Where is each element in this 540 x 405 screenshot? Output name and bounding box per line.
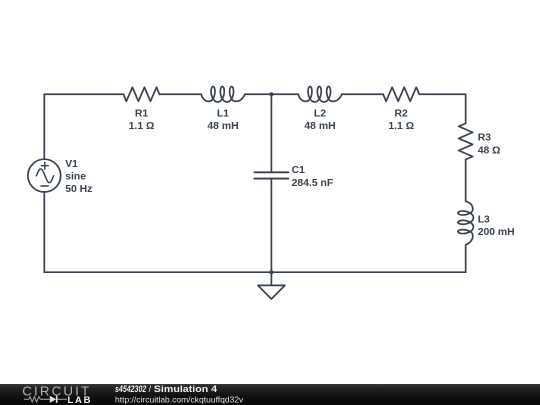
wire L1 to L2 through node B [245, 93, 298, 95]
logo resistor squiggle [29, 397, 41, 402]
svg-text:48 Ω: 48 Ω [478, 146, 501, 157]
resistor R2 [383, 87, 419, 101]
svg-text:L2: L2 [314, 108, 326, 119]
V1 plus sign [41, 162, 48, 169]
svg-text:L3: L3 [478, 214, 490, 225]
svg-text:LAB: LAB [68, 395, 93, 405]
svg-text:284.5 nF: 284.5 nF [292, 178, 334, 189]
svg-text:R1: R1 [135, 108, 149, 119]
wire R2 to top-right corner down to R3 [419, 94, 465, 123]
svg-text:Simulation 4: Simulation 4 [154, 384, 217, 394]
ground stub wire [270, 272, 272, 285]
ground symbol triangle [258, 285, 285, 299]
svg-text:48 mH: 48 mH [207, 121, 238, 132]
svg-text:R3: R3 [478, 132, 492, 143]
bottom node junction dot [269, 270, 273, 274]
wire L2 to R2 [342, 93, 383, 95]
wire L3 to bottom-right corner [465, 245, 467, 272]
svg-text:C1: C1 [292, 165, 306, 176]
wire left vertical bottom (V1 to bottom) [43, 192, 45, 272]
wire R3 to L3 [465, 160, 467, 202]
inductor L2 [298, 87, 342, 102]
capacitor C1 plates [254, 172, 288, 178]
svg-text:sine: sine [65, 172, 86, 183]
inductor L3 [458, 201, 473, 245]
svg-text:1.1 Ω: 1.1 Ω [388, 121, 414, 132]
V1 minus sign [41, 185, 48, 187]
inductor L1 [201, 87, 245, 102]
wire top-left horizontal (node A to R1) [44, 93, 123, 95]
V1 sine waveform [36, 169, 53, 183]
svg-text:V1: V1 [65, 159, 78, 170]
voltage source V1 circle [28, 159, 61, 192]
svg-text:http://circuitlab.com/ckqtuuff: http://circuitlab.com/ckqtuuffqd32v [115, 394, 244, 404]
svg-text:R2: R2 [395, 108, 409, 119]
logo diode [50, 396, 56, 403]
resistor R3 [459, 123, 473, 159]
wire left vertical top (to V1) [43, 94, 45, 159]
wire R1 to L1 [160, 93, 202, 95]
svg-text:48 mH: 48 mH [304, 121, 335, 132]
footer bar [0, 384, 540, 405]
logo schematic: wire [24, 397, 67, 402]
svg-text:200 mH: 200 mH [478, 227, 515, 238]
wire C1 to bottom node [270, 179, 272, 273]
svg-text:s4542302: s4542302 [115, 384, 146, 394]
svg-text:1.1 Ω: 1.1 Ω [129, 121, 155, 132]
resistor R1 [123, 87, 159, 101]
svg-text:L1: L1 [217, 108, 229, 119]
svg-text:50 Hz: 50 Hz [65, 184, 92, 195]
wire bottom horizontal [44, 271, 465, 273]
wire node B down to C1 [270, 94, 272, 172]
node B junction dot [269, 92, 273, 96]
